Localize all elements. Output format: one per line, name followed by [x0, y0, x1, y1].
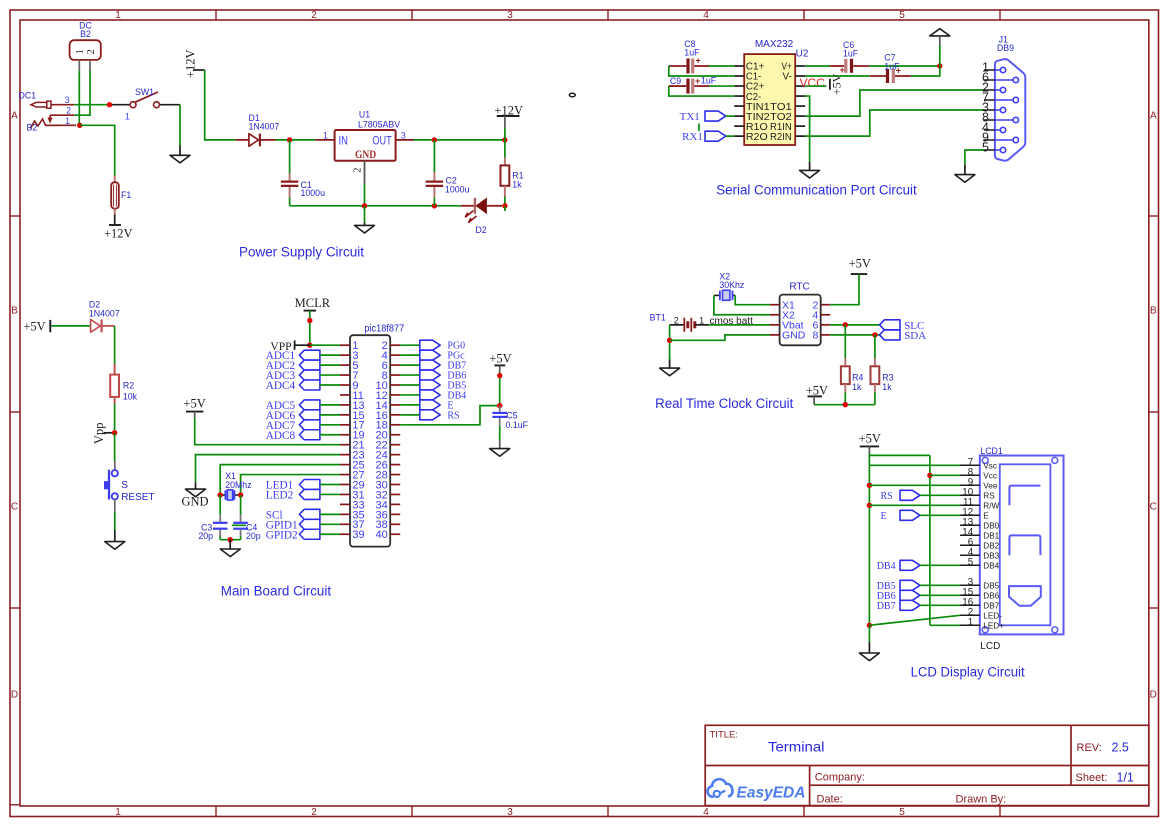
svg-text:+5V: +5V	[23, 319, 45, 333]
svg-text:RESET: RESET	[121, 492, 154, 503]
wire	[805, 90, 984, 116]
svg-text:DB6: DB6	[983, 591, 999, 600]
port PG0	[400, 340, 465, 352]
svg-text:D: D	[1150, 690, 1157, 701]
svg-text:Power Supply Circuit: Power Supply Circuit	[239, 244, 364, 260]
svg-text:1: 1	[125, 112, 130, 122]
junction	[867, 503, 872, 508]
junction	[872, 332, 877, 337]
svg-text:S: S	[121, 480, 128, 491]
wire	[869, 484, 960, 486]
port ADC3	[266, 370, 340, 382]
wire	[911, 45, 940, 76]
ground	[220, 549, 240, 557]
svg-text:20p: 20p	[246, 531, 261, 541]
svg-text:A: A	[1150, 111, 1157, 122]
svg-text:Company:: Company:	[815, 771, 865, 783]
svg-text:B2: B2	[80, 29, 91, 39]
small o mark	[569, 93, 575, 97]
svg-text:5: 5	[968, 557, 974, 568]
svg-text:39: 39	[352, 529, 364, 541]
svg-text:TITLE:: TITLE:	[710, 730, 739, 741]
svg-text:TX1: TX1	[680, 111, 700, 123]
EasyEDA logo	[708, 779, 806, 801]
svg-text:U1: U1	[359, 110, 370, 120]
junction	[107, 102, 112, 107]
svg-text:1: 1	[115, 10, 121, 21]
svg-text:SW1: SW1	[135, 87, 154, 97]
port ADC2	[266, 360, 340, 372]
svg-text:+5V: +5V	[183, 397, 205, 411]
svg-text:C5: C5	[506, 410, 517, 420]
wire	[232, 524, 246, 526]
svg-text:DB7: DB7	[983, 601, 999, 610]
port RS	[400, 410, 459, 422]
svg-text:1: 1	[323, 131, 328, 141]
ground	[186, 489, 206, 497]
diode D2	[89, 300, 120, 333]
svg-text:GPID2: GPID2	[266, 529, 298, 541]
svg-text:GND: GND	[782, 330, 806, 342]
wire	[805, 96, 809, 162]
junction	[228, 537, 233, 542]
wire	[868, 454, 870, 626]
port DB6	[400, 370, 466, 382]
ground	[859, 653, 879, 661]
svg-text:L7805ABV: L7805ABV	[358, 119, 400, 129]
battery BT1	[650, 313, 753, 332]
svg-text:F1: F1	[121, 190, 131, 200]
svg-text:1k: 1k	[852, 382, 862, 392]
svg-text:3: 3	[507, 10, 513, 21]
svg-text:D2: D2	[475, 225, 486, 235]
port GPID1	[266, 519, 340, 531]
svg-text:1: 1	[115, 807, 121, 818]
net flag +5V	[806, 384, 828, 405]
port DB4	[400, 390, 466, 402]
wire	[114, 433, 116, 461]
svg-text:EasyEDA: EasyEDA	[737, 785, 806, 802]
junction	[238, 492, 243, 497]
junction	[497, 403, 502, 408]
junction	[112, 430, 117, 435]
port PGc	[400, 350, 465, 362]
ground	[355, 225, 375, 233]
svg-text:C: C	[11, 502, 18, 513]
wire	[504, 128, 506, 140]
port DB7	[877, 600, 960, 612]
regulator U1 L7805ABV	[315, 110, 414, 184]
svg-text:GND: GND	[181, 495, 208, 509]
wire	[869, 454, 930, 456]
wire	[74, 104, 107, 106]
svg-text:R4: R4	[852, 373, 863, 383]
port ADC1	[266, 350, 340, 362]
svg-text:1000u: 1000u	[445, 184, 470, 194]
svg-text:40: 40	[376, 529, 388, 541]
junction	[843, 322, 848, 327]
svg-text:+: +	[695, 76, 700, 86]
pin 1 label	[65, 116, 70, 126]
svg-text:+5V: +5V	[489, 352, 511, 366]
wire	[669, 66, 734, 76]
net flag MCLR	[295, 296, 331, 311]
junction	[843, 402, 848, 407]
diode D1	[236, 113, 280, 146]
wire	[195, 418, 340, 445]
svg-text:2: 2	[66, 106, 71, 116]
svg-text:Sheet:: Sheet:	[1076, 772, 1108, 784]
wire	[74, 71, 90, 115]
svg-text:1: 1	[75, 49, 86, 54]
svg-text:E: E	[983, 511, 989, 520]
wire	[708, 324, 770, 326]
junction	[937, 63, 942, 68]
svg-text:DB2: DB2	[983, 541, 999, 550]
resistor R2	[110, 364, 137, 404]
junction	[307, 318, 312, 323]
port E	[881, 510, 961, 522]
fuse F1	[111, 176, 131, 215]
svg-text:1k: 1k	[882, 382, 892, 392]
svg-text:Main Board Circuit: Main Board Circuit	[221, 583, 331, 599]
wire	[965, 150, 984, 165]
capacitor C7	[870, 52, 911, 83]
svg-text:C: C	[1150, 502, 1157, 513]
svg-text:DB0: DB0	[983, 521, 999, 530]
port TX1	[680, 111, 735, 123]
svg-text:RS: RS	[447, 410, 459, 421]
wire	[805, 85, 826, 87]
wire	[869, 615, 960, 625]
port ADC5	[266, 400, 340, 412]
net flag +12V	[104, 215, 133, 241]
svg-text:10k: 10k	[123, 392, 138, 402]
svg-text:Vcc: Vcc	[983, 471, 997, 480]
svg-text:30Khz: 30Khz	[719, 280, 744, 290]
svg-text:RTC: RTC	[789, 281, 809, 292]
junction	[667, 338, 672, 343]
svg-text:1/1: 1/1	[1117, 770, 1134, 784]
svg-text:R2O: R2O	[746, 131, 768, 143]
wire	[830, 324, 879, 326]
net flag +5V	[23, 319, 50, 333]
port ADC8	[266, 430, 340, 442]
net flag +5V	[849, 256, 871, 274]
LCD module LCD1	[960, 446, 1064, 652]
svg-text:D: D	[11, 690, 18, 701]
wire	[869, 504, 960, 506]
svg-text:2.5: 2.5	[1112, 740, 1129, 754]
wire	[868, 454, 870, 456]
svg-text:LCD1: LCD1	[980, 446, 1003, 456]
ground	[800, 170, 820, 178]
junction	[502, 137, 507, 142]
svg-text:5: 5	[899, 807, 905, 818]
net flag +12V	[184, 49, 205, 78]
svg-text:1uF: 1uF	[684, 48, 700, 58]
capacitor C2	[426, 140, 470, 206]
svg-text:1uF: 1uF	[884, 62, 900, 72]
net flag +5V	[183, 397, 205, 418]
crystal X2	[714, 271, 744, 300]
wire	[809, 162, 811, 170]
wire	[830, 334, 879, 336]
wire	[669, 86, 734, 96]
svg-text:DB1: DB1	[983, 531, 999, 540]
port SCl	[266, 509, 340, 521]
net flag +12V	[494, 104, 523, 129]
section title	[655, 396, 793, 412]
IC RTC	[770, 281, 830, 345]
wire	[830, 274, 859, 305]
svg-text:RX1: RX1	[682, 131, 703, 143]
wire	[220, 465, 340, 495]
svg-text:pic18f877: pic18f877	[364, 323, 404, 334]
svg-text:R2IN: R2IN	[770, 131, 792, 143]
port LED2	[266, 489, 340, 501]
svg-text:BT1: BT1	[650, 313, 666, 323]
section title	[911, 664, 1025, 680]
svg-text:3: 3	[65, 95, 70, 105]
title block	[705, 725, 1149, 805]
port DB5	[877, 580, 960, 592]
wire	[241, 475, 340, 495]
pin 2 label	[66, 106, 71, 116]
port ADC4	[266, 380, 340, 392]
svg-text:0.1uF: 0.1uF	[506, 420, 529, 430]
net label GND	[181, 495, 208, 509]
junction	[432, 203, 437, 208]
svg-text:RS: RS	[881, 491, 893, 502]
svg-text:1000u: 1000u	[301, 188, 326, 198]
svg-text:ADC4: ADC4	[266, 380, 296, 392]
switch SW1	[112, 87, 180, 122]
wire	[229, 540, 231, 549]
wire	[868, 642, 870, 653]
wire	[964, 165, 966, 175]
capacitor C5	[492, 406, 528, 449]
svg-text:5: 5	[982, 141, 989, 155]
wire	[364, 206, 366, 223]
wire	[196, 455, 341, 483]
net label VCC	[800, 76, 826, 90]
port LED1	[266, 480, 340, 492]
wire	[709, 65, 734, 67]
capacitor C3	[198, 495, 227, 541]
svg-text:Terminal: Terminal	[768, 739, 825, 755]
wire	[868, 625, 870, 642]
wire	[114, 512, 116, 530]
net flag +5V	[859, 432, 881, 454]
svg-text:LED2: LED2	[266, 489, 294, 501]
port DB4	[877, 560, 960, 572]
svg-text:C9: C9	[670, 76, 681, 86]
svg-text:DC1: DC1	[19, 91, 37, 101]
svg-text:U2: U2	[796, 49, 809, 60]
junction	[77, 123, 82, 128]
svg-text:B2: B2	[27, 123, 38, 133]
svg-text:Date:: Date:	[817, 794, 843, 806]
net flag VPP	[270, 340, 294, 353]
port E	[400, 400, 453, 412]
wire	[929, 455, 931, 625]
svg-text:Vsc: Vsc	[983, 461, 997, 470]
svg-text:4: 4	[703, 807, 709, 818]
wire	[80, 125, 115, 175]
svg-text:GND: GND	[355, 149, 376, 161]
wire	[930, 474, 960, 476]
port SLC	[880, 320, 925, 332]
crystal X1	[220, 471, 251, 500]
wire	[499, 373, 501, 406]
svg-text:3: 3	[507, 807, 513, 818]
svg-text:20p: 20p	[198, 531, 213, 541]
wire	[290, 205, 461, 207]
svg-text:MCLR: MCLR	[295, 296, 331, 310]
port ADC6	[266, 410, 340, 422]
wire	[869, 464, 960, 466]
wire	[114, 404, 116, 433]
jack B2	[27, 119, 77, 133]
net flag +5V	[489, 352, 511, 373]
wire	[735, 295, 770, 304]
svg-text:2: 2	[311, 807, 317, 818]
svg-text:1: 1	[968, 617, 973, 628]
wire	[669, 360, 671, 369]
junction	[287, 137, 292, 142]
wire	[364, 183, 366, 205]
port ADC7	[266, 420, 340, 432]
capacitor C4	[233, 495, 260, 541]
svg-text:DB5: DB5	[983, 581, 999, 590]
svg-text:4: 4	[703, 10, 709, 21]
wire	[714, 295, 770, 314]
svg-text:2: 2	[86, 49, 97, 54]
svg-text:V-: V-	[783, 71, 793, 83]
connector DC1	[19, 91, 75, 124]
svg-text:LED+: LED+	[983, 621, 1004, 630]
wire	[195, 482, 197, 489]
svg-text:+5V: +5V	[849, 256, 871, 270]
svg-text:Real Time Clock Circuit: Real Time Clock Circuit	[655, 396, 793, 412]
junction	[307, 343, 312, 348]
section title	[239, 244, 364, 260]
ground	[660, 368, 680, 376]
svg-text:VCC: VCC	[800, 76, 826, 90]
wire	[364, 222, 366, 225]
svg-text:R/W: R/W	[983, 501, 999, 510]
svg-text:R2: R2	[123, 381, 134, 391]
svg-text:DB9: DB9	[997, 43, 1014, 53]
wire	[295, 344, 310, 346]
wire	[51, 325, 90, 327]
wire	[114, 326, 116, 364]
port DB6	[877, 590, 960, 602]
wire	[805, 110, 984, 136]
wire	[669, 325, 671, 360]
svg-text:RS: RS	[983, 491, 995, 500]
port RS	[881, 490, 961, 502]
svg-text:LED-: LED-	[983, 611, 1002, 620]
svg-text:B: B	[11, 306, 18, 317]
svg-text:+5V: +5V	[830, 73, 844, 95]
svg-text:OUT: OUT	[372, 135, 391, 147]
port SDA	[880, 330, 927, 342]
LED D2	[461, 198, 502, 235]
junction	[927, 473, 932, 478]
wire	[220, 539, 240, 541]
svg-text:5: 5	[899, 10, 905, 21]
junction	[867, 623, 872, 628]
junction	[502, 203, 507, 208]
junction	[867, 483, 872, 488]
power flag	[930, 29, 950, 46]
ground	[105, 542, 125, 550]
svg-text:2: 2	[674, 315, 679, 325]
svg-text:+5V: +5V	[859, 432, 881, 446]
resistor R1	[501, 140, 524, 206]
svg-text:B: B	[1150, 306, 1157, 317]
port GPID2	[266, 529, 340, 541]
wire	[698, 124, 700, 132]
wire	[114, 530, 116, 542]
svg-text:IN: IN	[339, 135, 348, 147]
svg-text:R3: R3	[882, 373, 893, 383]
wire	[670, 335, 770, 340]
svg-text:1N4007: 1N4007	[249, 122, 280, 132]
svg-text:REV:: REV:	[1077, 742, 1102, 754]
wire	[179, 146, 181, 156]
wire	[179, 105, 181, 146]
svg-text:20Mhz: 20Mhz	[225, 480, 251, 490]
wire	[814, 404, 875, 406]
ground	[490, 449, 510, 457]
wire	[310, 344, 340, 346]
section title	[716, 183, 917, 199]
ground	[955, 175, 975, 183]
section title	[221, 583, 331, 599]
svg-text:2: 2	[311, 10, 317, 21]
svg-text:2: 2	[352, 168, 363, 173]
svg-text:+12V: +12V	[184, 49, 198, 78]
microcontroller pic18f877	[340, 323, 405, 546]
svg-text:LCD: LCD	[980, 641, 1000, 652]
net flag +5V	[830, 73, 844, 95]
wire	[400, 406, 500, 425]
svg-text:8: 8	[812, 330, 818, 342]
svg-text:Drawn By:: Drawn By:	[956, 794, 1007, 806]
wire	[276, 139, 316, 141]
connector B2 (DC jack)	[70, 20, 101, 71]
svg-text:DB4: DB4	[983, 561, 999, 570]
svg-text:Vee: Vee	[983, 481, 998, 490]
junction	[362, 203, 367, 208]
junction	[218, 492, 223, 497]
svg-text:DB7: DB7	[877, 601, 896, 612]
wire	[504, 206, 506, 211]
net flag Vpp	[92, 423, 115, 445]
wire	[930, 624, 960, 626]
svg-text:1uF: 1uF	[701, 76, 717, 86]
pin 3 label	[65, 95, 70, 105]
svg-text:MAX232: MAX232	[755, 39, 794, 50]
ground	[170, 155, 190, 163]
port DB7	[400, 360, 466, 372]
wire	[709, 85, 734, 87]
resistor R3	[871, 335, 894, 405]
svg-text:1N4007: 1N4007	[89, 308, 120, 318]
